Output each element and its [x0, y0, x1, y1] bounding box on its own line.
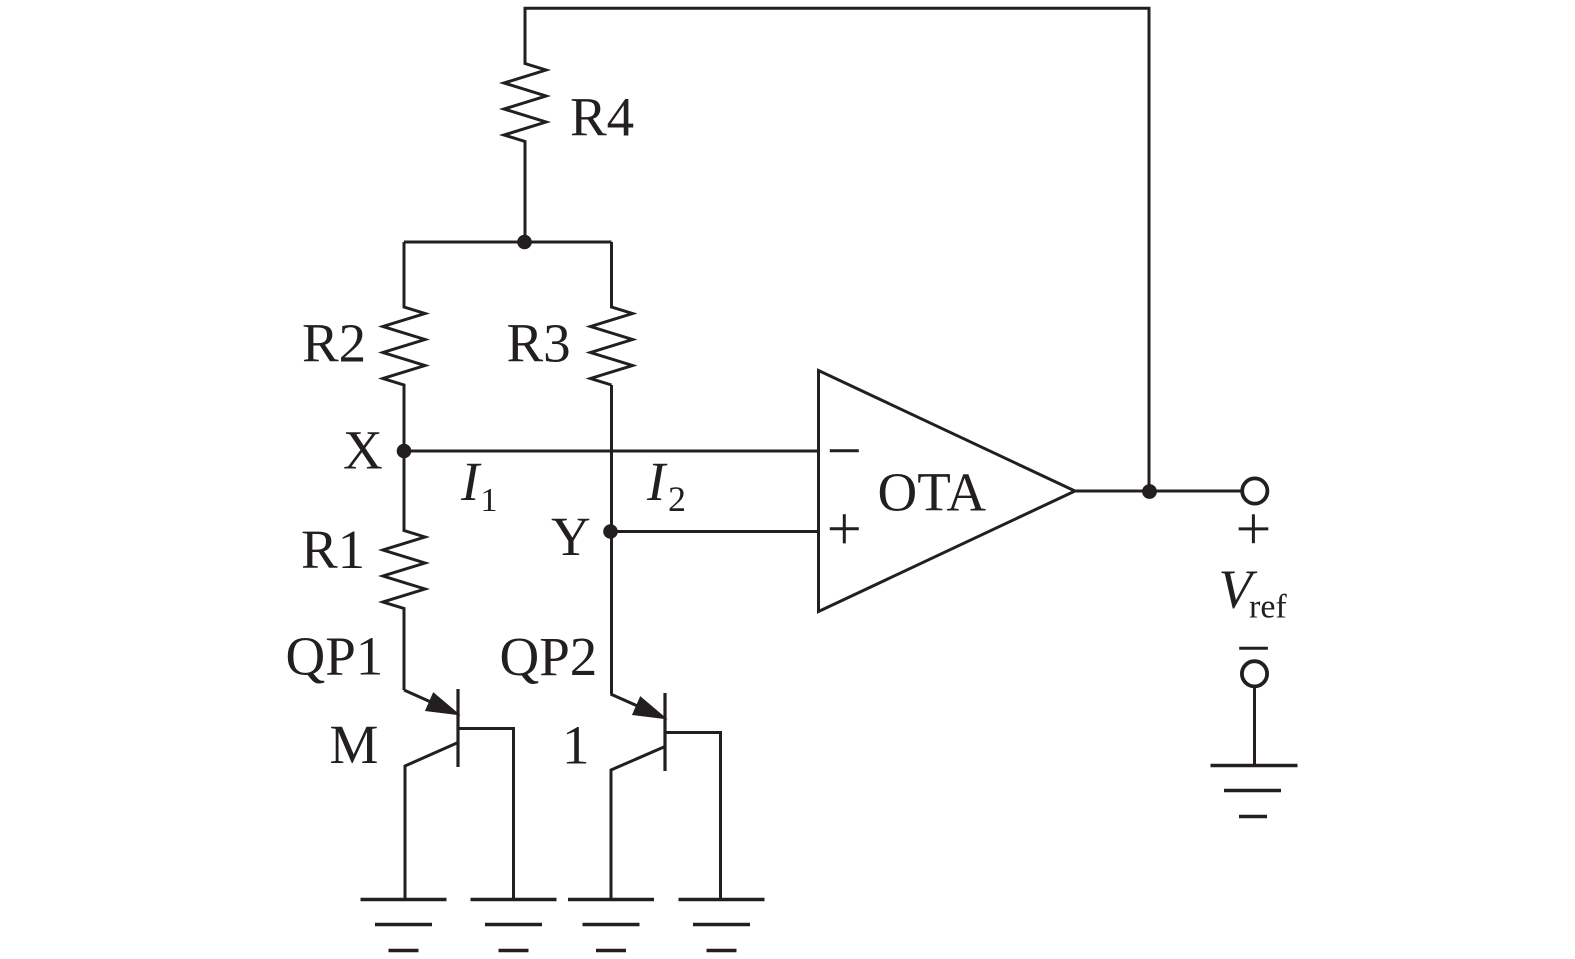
ground: QP2 collector — [568, 900, 654, 951]
transistor QP1 — [404, 689, 514, 899]
ground: QP1 collector — [361, 900, 447, 951]
svg-text:R4: R4 — [570, 87, 634, 148]
ground: QP1 base — [471, 900, 557, 951]
svg-text:I1: I1 — [460, 451, 498, 519]
label + output polarity — [1239, 514, 1269, 543]
label - return polarity — [1239, 647, 1268, 650]
svg-text:I2: I2 — [646, 451, 686, 519]
wire: node Y to OTA non-inverting input — [611, 530, 819, 533]
svg-text:R1: R1 — [301, 519, 365, 580]
label + non-inverting input — [830, 514, 859, 543]
svg-text:R3: R3 — [507, 313, 571, 374]
label - inverting input — [830, 449, 859, 452]
terminal: Vref negative — [1242, 661, 1267, 686]
wire: OTA output to Vref terminal — [1075, 490, 1243, 493]
svg-text:QP2: QP2 — [500, 626, 598, 687]
wire: Vref negative terminal to ground — [1253, 688, 1256, 766]
svg-text:1: 1 — [562, 715, 590, 776]
node X — [397, 444, 412, 459]
resistor R1 — [383, 451, 425, 690]
ground: QP2 base — [679, 900, 765, 951]
ground: Vref return — [1211, 766, 1298, 817]
wire: rail joining tops of R2 and R3 — [404, 241, 612, 244]
op-amp U1 OTA — [819, 371, 1076, 612]
wire: R3 bottom down through node Y to QP2 emitter — [610, 385, 613, 694]
resistor R4 — [504, 8, 546, 242]
resistor R3 — [591, 242, 633, 385]
svg-text:QP1: QP1 — [286, 626, 384, 687]
terminal: Vref positive — [1242, 478, 1267, 503]
svg-text:Y: Y — [551, 506, 591, 567]
wire: feedback rail from R4 top across the top and down to output node — [524, 8, 1150, 491]
svg-text:R2: R2 — [302, 313, 366, 374]
node: R4 / R2 / R3 junction — [517, 235, 532, 250]
svg-text:Vref: Vref — [1219, 559, 1288, 626]
node: output / feedback junction — [1142, 484, 1157, 499]
svg-text:M: M — [330, 714, 379, 775]
svg-text:X: X — [343, 420, 383, 481]
transistor QP2 — [611, 693, 721, 899]
svg-text:OTA: OTA — [878, 462, 987, 523]
wire: node X to OTA inverting input — [404, 450, 819, 453]
node Y — [603, 524, 618, 539]
resistor R2 — [383, 242, 425, 451]
